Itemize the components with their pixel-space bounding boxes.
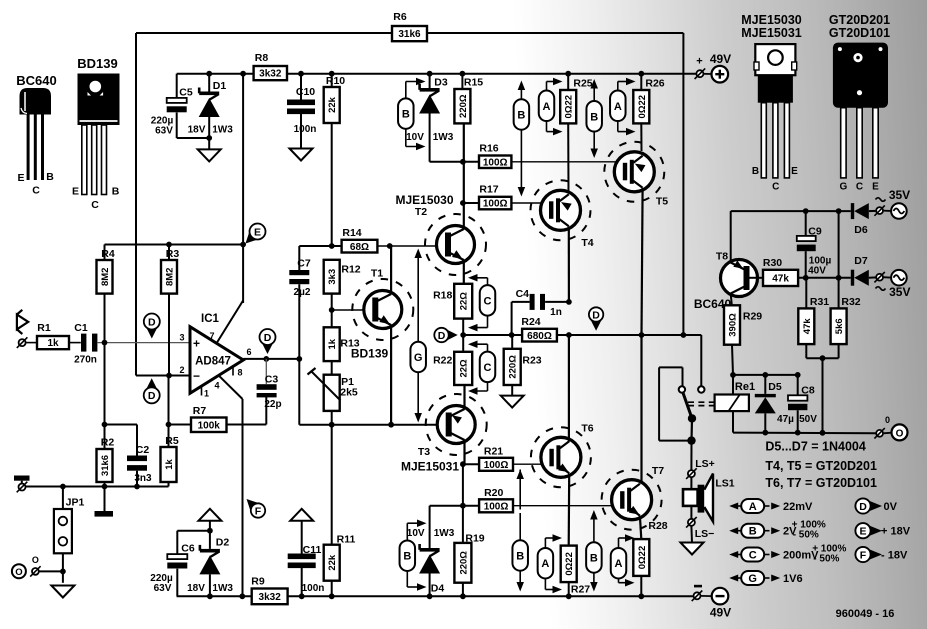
svg-text:D: D — [438, 330, 446, 342]
wire R17 row — [463, 202, 479, 204]
svg-text:D5...D7 = 1N4004: D5...D7 = 1N4004 — [765, 439, 865, 453]
svg-text:T5: T5 — [656, 196, 668, 208]
arrow B R20ext to rail — [586, 510, 602, 592]
resistor R6 — [392, 11, 427, 41]
capacitor C4 — [512, 288, 572, 335]
resistor R1 — [37, 322, 69, 349]
svg-text:GT20D101: GT20D101 — [829, 26, 890, 40]
arrow F (-18V marker) — [241, 494, 268, 521]
trimmer P1 — [308, 368, 358, 425]
svg-text:31k6: 31k6 — [100, 455, 111, 476]
svg-text:T4, T5 = GT20D201: T4, T5 = GT20D201 — [765, 459, 877, 473]
capacitor C1 — [69, 322, 97, 366]
svg-text:R20: R20 — [484, 487, 503, 499]
svg-text:IC1: IC1 — [201, 313, 220, 325]
svg-text:R2: R2 — [101, 437, 115, 449]
svg-text:R11: R11 — [337, 534, 356, 546]
resistor R27 — [561, 546, 591, 600]
svg-text:100Ω: 100Ω — [483, 199, 508, 210]
svg-text:0Ω22: 0Ω22 — [637, 95, 648, 118]
svg-text:1W3: 1W3 — [212, 125, 233, 136]
wire T7 emitter to R28 — [640, 516, 641, 539]
svg-text:D: D — [148, 390, 156, 402]
svg-text:3k32: 3k32 — [259, 69, 282, 80]
resistor R8 — [254, 52, 287, 80]
svg-text:R32: R32 — [841, 296, 860, 308]
svg-text:E: E — [791, 166, 798, 177]
wire +18V drop to opamp pin7 — [240, 71, 246, 77]
wire relay NC bracket — [659, 440, 691, 442]
speaker LS- terminal — [688, 519, 695, 526]
svg-text:+ 18V: + 18V — [881, 526, 911, 538]
svg-text:1W3: 1W3 — [434, 528, 455, 539]
svg-text:49V: 49V — [710, 52, 731, 66]
resistor R3 — [161, 242, 179, 376]
resistor R7 — [169, 405, 227, 432]
input ground terminal — [19, 484, 26, 491]
resistor R26 — [633, 71, 664, 151]
arrow C across R18 — [468, 274, 495, 331]
wire C1 to opamp pin3 — [98, 342, 190, 344]
svg-text:R5: R5 — [165, 435, 179, 447]
svg-text:22k: 22k — [327, 554, 338, 571]
arrow B across D4 — [400, 519, 427, 590]
arrow B rail to R17 row — [514, 81, 530, 197]
svg-text:1k: 1k — [47, 338, 59, 349]
input signal arrow — [17, 310, 28, 334]
svg-text:C10: C10 — [296, 86, 315, 98]
svg-text:G: G — [840, 182, 848, 193]
svg-text:C: C — [856, 182, 863, 193]
wire T5 emitter column to output — [642, 188, 643, 335]
svg-text:3k32: 3k32 — [259, 592, 282, 603]
svg-text:- 18V: - 18V — [881, 550, 908, 562]
svg-text:D4: D4 — [431, 583, 445, 595]
svg-text:LS+: LS+ — [695, 458, 715, 470]
BC640 package drawing (TO-92) — [16, 73, 56, 197]
svg-text:960049 - 16: 960049 - 16 — [836, 608, 895, 620]
svg-text:0Ω22: 0Ω22 — [637, 546, 648, 569]
svg-text:18V: 18V — [188, 125, 206, 136]
svg-text:C5: C5 — [179, 87, 193, 99]
svg-text:5k6: 5k6 — [834, 318, 845, 334]
ground bar below R2 — [104, 487, 106, 512]
svg-text:1W3: 1W3 — [433, 132, 454, 143]
resistor R24 — [521, 316, 557, 342]
svg-text:+: + — [193, 337, 200, 351]
arrow D at output row — [589, 307, 603, 330]
svg-text:A: A — [543, 101, 551, 113]
capacitor C8 — [777, 375, 817, 433]
svg-text:220Ω: 220Ω — [508, 355, 519, 379]
zener diode D4 — [407, 506, 455, 599]
wire opamp pin2 — [169, 375, 191, 377]
wire protection bottom rail — [733, 432, 876, 435]
svg-text:R1: R1 — [37, 322, 51, 334]
svg-text:O: O — [32, 555, 39, 565]
svg-text:D: D — [264, 332, 272, 344]
wire R16 to T5 gate — [511, 161, 622, 163]
svg-text:47k: 47k — [802, 318, 813, 335]
svg-text:BD139: BD139 — [351, 347, 389, 361]
svg-text:D: D — [148, 316, 156, 328]
svg-text:MJE15031: MJE15031 — [401, 460, 459, 474]
svg-text:63V: 63V — [155, 126, 173, 137]
svg-text:22mV: 22mV — [783, 501, 813, 513]
svg-text:100k: 100k — [198, 420, 221, 431]
rail arrow above C11 — [290, 509, 313, 521]
svg-text:R27: R27 — [571, 584, 590, 596]
wire R20 row — [430, 505, 480, 507]
svg-text:R15: R15 — [464, 77, 483, 89]
resistor R29 — [724, 305, 762, 375]
svg-text:C9: C9 — [808, 226, 822, 238]
svg-text:R19: R19 — [465, 533, 484, 545]
legend G 1V6 — [729, 571, 802, 585]
svg-text:T1: T1 — [371, 268, 383, 280]
arrow E (+18V marker) — [240, 220, 269, 249]
svg-text:C1: C1 — [74, 322, 88, 334]
resistor R19 — [454, 533, 484, 600]
svg-text:0Ω22: 0Ω22 — [564, 95, 575, 118]
svg-text:D7: D7 — [854, 255, 868, 267]
resistor R9 — [251, 576, 287, 605]
svg-text:C6: C6 — [181, 543, 195, 555]
svg-text:E: E — [254, 226, 261, 238]
BD139 package drawing (TO-126) — [72, 56, 120, 211]
svg-text:R25: R25 — [573, 78, 592, 90]
wire output mid row — [463, 334, 522, 336]
resistor R15 — [454, 71, 483, 124]
svg-text:D5: D5 — [768, 381, 782, 393]
svg-text:220Ω: 220Ω — [458, 94, 469, 118]
svg-text:C: C — [772, 182, 779, 193]
GT20D201/GT20D101 package drawing — [829, 13, 890, 193]
wire input gnd return — [104, 343, 106, 449]
wire T6 collector column — [568, 335, 570, 442]
svg-text:D: D — [592, 309, 600, 321]
svg-text:2k5: 2k5 — [340, 387, 358, 399]
input terminal — [19, 339, 26, 346]
svg-text:8: 8 — [237, 368, 242, 378]
svg-text:R8: R8 — [255, 52, 269, 64]
wire R20 to T7 gate — [513, 505, 620, 507]
wire R19 column — [462, 464, 464, 543]
svg-text:R3: R3 — [166, 248, 180, 260]
wire opamp output — [243, 358, 299, 360]
relay coil Re1 — [715, 381, 755, 411]
svg-text:R21: R21 — [484, 446, 503, 458]
svg-text:7: 7 — [209, 331, 214, 341]
svg-text:B: B — [590, 111, 598, 123]
svg-text:G: G — [748, 573, 757, 585]
resistor R28 — [633, 520, 667, 599]
svg-text:C2: C2 — [136, 444, 150, 456]
wire feedback R6 loop — [136, 32, 392, 34]
svg-text:- 50%: - 50% — [813, 553, 839, 564]
svg-text:T8: T8 — [716, 251, 728, 263]
svg-text:B: B — [46, 171, 54, 183]
transistor T1 BD139 — [332, 246, 414, 425]
resistor R21 — [479, 446, 513, 471]
svg-text:50V: 50V — [799, 414, 817, 425]
wire -49V bottom rail — [177, 595, 252, 597]
svg-text:A: A — [615, 558, 623, 570]
svg-text:18V: 18V — [187, 583, 205, 594]
wire T2 collector column — [463, 123, 465, 229]
svg-text:B: B — [402, 109, 410, 121]
svg-text:T3: T3 — [418, 446, 430, 458]
svg-text:C3: C3 — [265, 374, 279, 386]
svg-text:2µ2: 2µ2 — [294, 287, 311, 298]
capacitor C3 — [227, 359, 282, 425]
svg-text:68Ω: 68Ω — [350, 242, 369, 253]
svg-text:10V: 10V — [407, 528, 425, 539]
svg-text:B: B — [517, 110, 525, 122]
svg-text:220Ω: 220Ω — [458, 551, 469, 575]
wire opamp pin4 to -18V — [219, 376, 243, 399]
arrow A across R26 — [610, 78, 635, 136]
svg-text:63V: 63V — [154, 583, 172, 594]
svg-text:R7: R7 — [193, 405, 207, 417]
svg-text:40V: 40V — [808, 266, 826, 277]
svg-text:3k3: 3k3 — [327, 269, 338, 285]
svg-text:O: O — [896, 429, 904, 440]
svg-text:AD847: AD847 — [195, 356, 231, 368]
zener diode D3 — [406, 71, 454, 162]
svg-text:R26: R26 — [645, 78, 664, 90]
capacitor C11 — [288, 520, 325, 599]
svg-text:1n: 1n — [550, 307, 562, 318]
legend D 0V — [855, 498, 897, 513]
arrow C across R22 — [468, 340, 495, 394]
svg-text:680Ω: 680Ω — [527, 331, 552, 342]
legend E +18V — [855, 523, 910, 538]
svg-text:C11: C11 — [303, 544, 322, 556]
arrow A across R27 — [538, 534, 562, 593]
resistor R11 — [324, 425, 356, 599]
resistor R5 — [161, 435, 179, 487]
svg-text:−: − — [193, 369, 200, 383]
svg-text:100Ω: 100Ω — [484, 460, 509, 471]
svg-text:A: A — [541, 558, 549, 570]
svg-text:R22: R22 — [433, 354, 452, 366]
arrow B rail to R16 ext row — [586, 79, 602, 158]
svg-text:E: E — [72, 186, 79, 198]
svg-text:R17: R17 — [479, 184, 498, 196]
diode D7 — [851, 255, 876, 286]
wire T3 collector to R21 row — [460, 461, 466, 467]
svg-text:10V: 10V — [406, 132, 424, 143]
svg-text:C: C — [91, 199, 99, 211]
op-amp IC1 AD847 — [179, 313, 251, 399]
transistor T4 GT20D201 — [531, 180, 594, 249]
svg-text:100n: 100n — [302, 583, 325, 594]
svg-text:3: 3 — [179, 333, 184, 343]
ground arrow below D1 — [198, 149, 221, 161]
wire T8 emitter top — [730, 211, 732, 263]
terminal -49V — [692, 585, 731, 620]
svg-text:R10: R10 — [326, 75, 345, 87]
svg-text:T7: T7 — [652, 465, 664, 477]
speaker LS+ terminal — [690, 441, 692, 470]
transistor T8 BC640 — [694, 251, 758, 312]
capacitor C10 — [287, 71, 316, 150]
svg-text:R31: R31 — [810, 296, 829, 308]
terminal O (signal gnd) — [32, 568, 39, 575]
transistor T6 GT20D101 — [531, 423, 594, 488]
svg-text:MJE15030: MJE15030 — [395, 193, 453, 207]
svg-text:49V: 49V — [710, 606, 731, 620]
resistor R32 — [831, 296, 861, 344]
zener diode D1 — [188, 71, 234, 152]
svg-text:C: C — [484, 362, 492, 374]
svg-text:D1: D1 — [213, 80, 227, 92]
ground triangle below JP1 — [51, 586, 74, 598]
legend B 2V — [729, 520, 826, 541]
svg-text:D2: D2 — [216, 537, 230, 549]
wire relay coil connections — [732, 375, 734, 395]
svg-text:C8: C8 — [801, 385, 815, 397]
capacitor C5 — [151, 74, 209, 138]
svg-text:E: E — [17, 172, 24, 184]
svg-text:C4: C4 — [516, 288, 530, 300]
diode D6 — [851, 203, 876, 236]
wire ground bus — [26, 486, 169, 488]
svg-text:JP1: JP1 — [66, 497, 85, 509]
svg-text:B: B — [749, 526, 757, 538]
svg-text:D3: D3 — [434, 77, 448, 89]
wire input to R1 — [26, 342, 37, 344]
svg-text:A: A — [614, 101, 622, 113]
resistor R2 — [97, 437, 115, 487]
wire T2 emitter to R18 — [463, 260, 465, 284]
svg-text:T4: T4 — [581, 237, 593, 249]
svg-text:B: B — [112, 186, 120, 198]
arrow B across D3 — [398, 78, 425, 151]
svg-text:B: B — [752, 166, 759, 177]
svg-text:G: G — [414, 352, 423, 364]
transistor T5 GT20D201 — [604, 142, 668, 208]
wire T6 emitter to R27 — [568, 474, 571, 546]
loudspeaker LS1 — [683, 474, 735, 522]
wire R21 to T6 gate — [513, 463, 551, 465]
svg-text:E: E — [859, 526, 866, 538]
svg-text:R18: R18 — [433, 290, 452, 302]
svg-text:E: E — [872, 182, 879, 193]
ground arrow below R23 — [501, 396, 524, 408]
svg-text:22Ω: 22Ω — [459, 359, 470, 378]
wire inverting node column — [168, 376, 170, 448]
arrow A across R25 — [539, 78, 563, 136]
svg-text:8M2: 8M2 — [165, 268, 176, 286]
resistor R18 — [433, 284, 472, 335]
arrow D at driver node — [434, 328, 457, 342]
svg-text:- 50%: - 50% — [793, 530, 819, 541]
resistor R23 — [504, 335, 542, 397]
svg-text:4: 4 — [214, 381, 219, 391]
terminal 35V lower — [874, 270, 910, 299]
wire T3 base row — [299, 424, 447, 426]
svg-text:T6, T7 = GT20D101: T6, T7 = GT20D101 — [765, 476, 877, 490]
svg-text:100Ω: 100Ω — [483, 157, 508, 168]
svg-text:R16: R16 — [479, 143, 498, 155]
svg-text:R14: R14 — [342, 227, 361, 239]
svg-text:35V: 35V — [889, 188, 910, 202]
capacitor C6 — [150, 531, 195, 597]
arrow G bias spread — [410, 249, 426, 423]
svg-text:100Ω: 100Ω — [484, 501, 509, 512]
arrow A across R28 — [611, 534, 635, 586]
svg-text:2: 2 — [179, 365, 184, 375]
resistor R22 — [433, 332, 472, 385]
legend F -18V — [855, 547, 908, 562]
svg-text:D6: D6 — [854, 224, 868, 236]
legend A 22mV — [729, 499, 813, 513]
svg-text:100n: 100n — [294, 124, 317, 135]
svg-text:+: + — [696, 56, 702, 68]
svg-text:Re1: Re1 — [735, 381, 755, 393]
wire T3 emitter column up — [463, 385, 465, 409]
svg-text:1k: 1k — [327, 338, 338, 349]
legend C 200mV — [729, 543, 846, 564]
resistor R4 — [97, 245, 115, 343]
svg-text:0: 0 — [885, 415, 890, 425]
wire T8 collector to R29 — [731, 294, 732, 306]
rail arrow above D2 — [198, 509, 221, 521]
node E wire (+18V to R4 R3 pin7) — [105, 244, 244, 246]
relay linkage dashes — [688, 401, 714, 403]
svg-text:R6: R6 — [393, 11, 407, 23]
wire T2 base row — [299, 245, 341, 247]
transistor T2 MJE15030 — [395, 193, 486, 275]
svg-text:R29: R29 — [743, 311, 762, 323]
resistor R30 — [748, 257, 799, 286]
wire +49V top rail — [177, 73, 254, 75]
svg-text:C7: C7 — [297, 258, 311, 270]
svg-text:270n: 270n — [74, 355, 97, 366]
svg-text:1k: 1k — [164, 459, 175, 470]
svg-text:6: 6 — [246, 347, 251, 357]
svg-text:31k6: 31k6 — [398, 29, 421, 40]
capacitor C9 — [797, 211, 832, 278]
wire R31 R32 join — [805, 344, 807, 358]
svg-text:BC640: BC640 — [16, 73, 56, 88]
svg-text:F: F — [860, 549, 867, 561]
svg-text:3n3: 3n3 — [134, 473, 152, 484]
MJE15030/MJE15031 package drawing (TO-220) — [741, 13, 802, 193]
svg-text:T6: T6 — [581, 423, 593, 435]
capacitor C2 — [127, 425, 152, 487]
resistor R13 — [324, 327, 360, 374]
resistor R12 — [324, 260, 361, 328]
wire JP1 to O terminal — [60, 569, 66, 575]
svg-text:C: C — [484, 295, 492, 307]
zener diode D2 — [177, 520, 233, 599]
svg-text:LS1: LS1 — [715, 478, 734, 490]
svg-text:B: B — [403, 551, 411, 563]
svg-text:1V6: 1V6 — [783, 573, 803, 585]
diode D5 — [755, 375, 782, 433]
arrow D at input wire — [144, 314, 160, 339]
arrow D at output — [260, 329, 276, 354]
svg-text:R30: R30 — [763, 257, 782, 269]
svg-text:MJE15031: MJE15031 — [741, 26, 802, 40]
wire output to relay NO contact — [700, 335, 702, 386]
svg-text:1: 1 — [204, 389, 209, 399]
transistor T7 GT20D101 — [602, 465, 665, 530]
wire R17 to T4 gate — [511, 202, 551, 204]
